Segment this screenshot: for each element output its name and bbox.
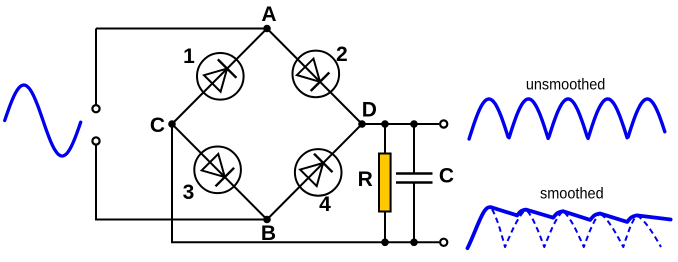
svg-text:unsmoothed: unsmoothed bbox=[526, 77, 606, 94]
svg-text:A: A bbox=[261, 3, 276, 26]
svg-text:B: B bbox=[261, 222, 276, 245]
svg-text:C: C bbox=[150, 114, 165, 137]
svg-text:D: D bbox=[362, 98, 377, 121]
svg-text:R: R bbox=[358, 168, 373, 191]
svg-text:C: C bbox=[439, 164, 454, 187]
svg-text:3: 3 bbox=[183, 181, 195, 204]
svg-text:4: 4 bbox=[319, 193, 331, 216]
svg-text:smoothed: smoothed bbox=[540, 185, 604, 202]
svg-text:1: 1 bbox=[183, 45, 195, 68]
svg-text:2: 2 bbox=[336, 43, 348, 66]
